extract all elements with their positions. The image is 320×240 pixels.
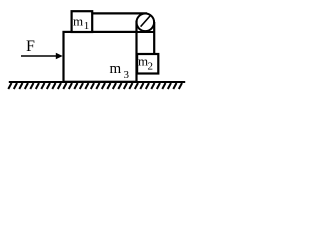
- force arrow F shaft: [21, 55, 57, 57]
- block m1: [72, 11, 93, 32]
- ground line: [9, 81, 185, 83]
- force arrow F head: [56, 53, 63, 59]
- svg-text:3: 3: [124, 69, 130, 81]
- wire: top edge extension under pulley to right support: [136, 31, 155, 33]
- string from m1 to pulley: [92, 12, 148, 14]
- wire: string from pulley down to m2: [153, 22, 155, 55]
- pulley wheel: [137, 13, 155, 31]
- ground hatching: [8, 83, 182, 89]
- svg-text:m: m: [73, 14, 83, 29]
- pulley axle mark: [141, 15, 151, 27]
- block m3: [64, 32, 137, 82]
- svg-text:1: 1: [84, 20, 90, 32]
- svg-text:F: F: [26, 38, 35, 55]
- svg-text:m: m: [110, 61, 122, 77]
- block m2: [137, 54, 158, 74]
- svg-text:2: 2: [148, 61, 154, 73]
- wire: block right edge extension up to pulley: [135, 21, 137, 32]
